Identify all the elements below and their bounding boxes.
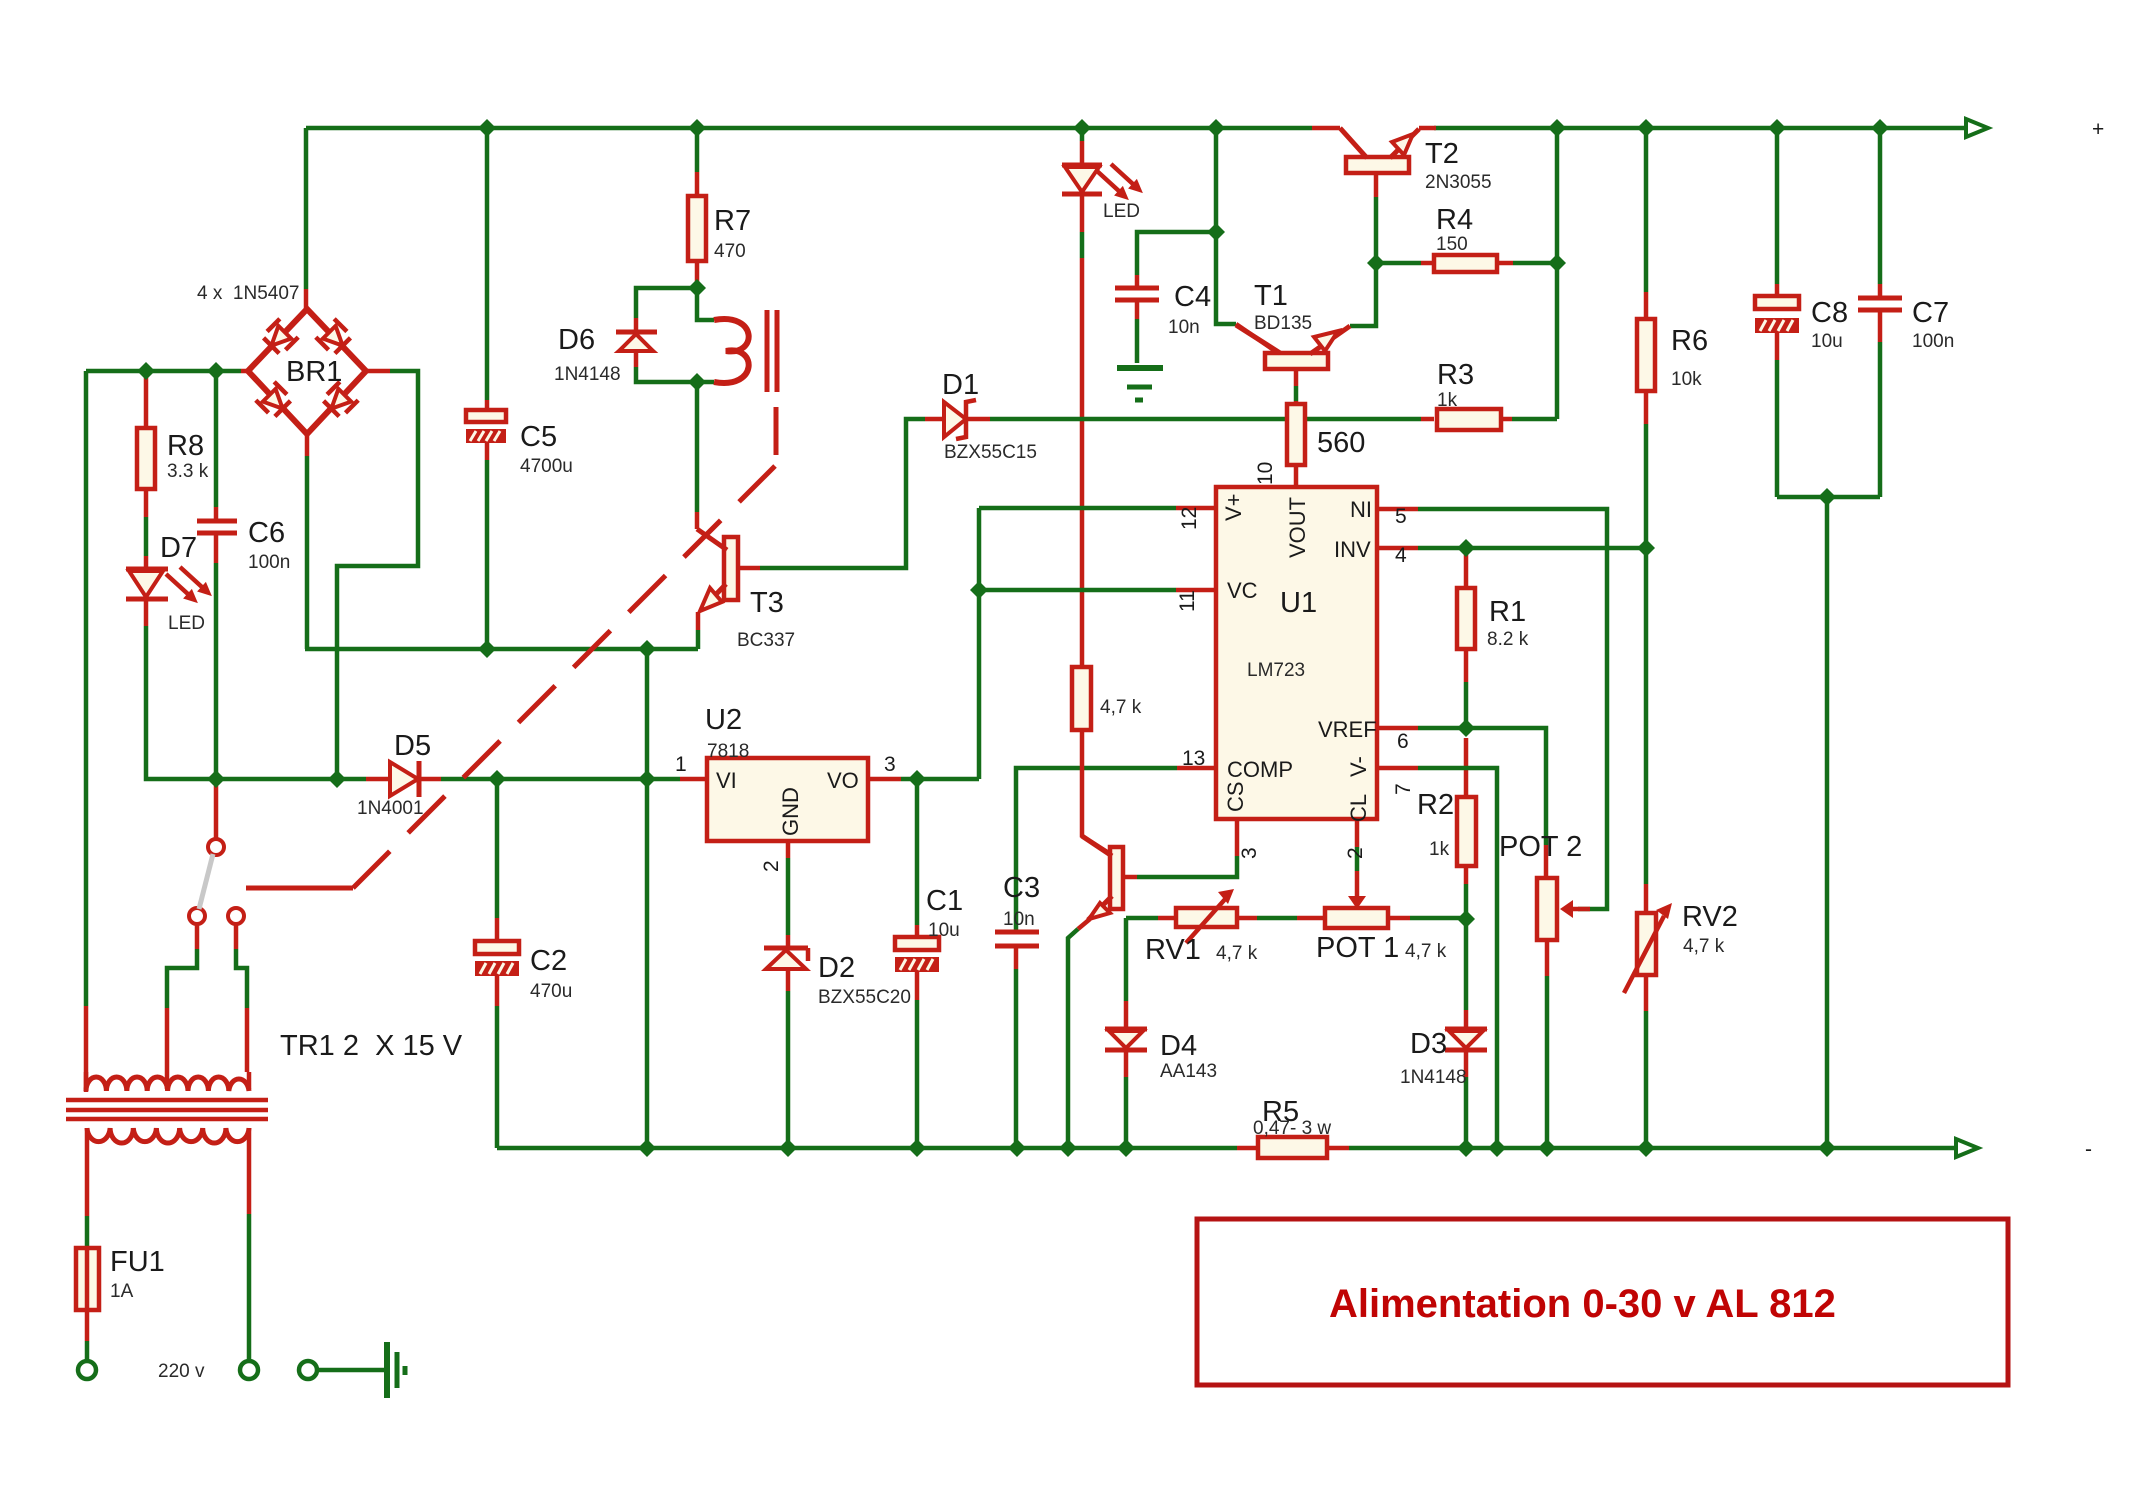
transformer TR1 secondary winding [86,1077,249,1091]
wire R4 leads [1376,261,1421,266]
wire D1 line left of 560 [990,417,1287,422]
svg-text:3.3 k: 3.3 k [167,461,209,482]
resistor R5 [1258,1137,1327,1158]
svg-text:BZX55C20: BZX55C20 [818,987,911,1008]
resistor R3 [1437,409,1501,430]
wire D7 bottom to y779 [144,600,149,626]
wire T3 emitter down [696,612,701,630]
wire switch common stub [214,786,219,839]
wire C7 branch [1878,128,1883,284]
svg-text:T3: T3 [750,587,784,619]
BR1 diode top-left [262,319,298,355]
capacitor C5 polarized [466,410,506,422]
svg-text:BD135: BD135 [1254,313,1312,334]
IC U1 LM723 [1216,487,1377,819]
wire U1 pin13 COMP line to C3 [1177,766,1216,771]
svg-text:10: 10 [1254,462,1277,485]
svg-text:C8: C8 [1811,297,1848,329]
svg-text:3: 3 [1238,847,1261,859]
wire left column top y371 [86,369,241,374]
pot POT1 [1325,871,1388,928]
wire C1 bottom [915,970,920,1000]
svg-text:4,7 k: 4,7 k [1216,943,1258,964]
wire U1 pin4 INV line [1377,546,1418,551]
svg-text:C3: C3 [1003,872,1040,904]
svg-text:T2: T2 [1425,138,1459,170]
wire C5 branch [485,128,490,400]
svg-text:C6: C6 [248,517,285,549]
resistor R4 [1434,255,1497,272]
capacitor C3 [995,932,1039,946]
diode D6 [616,332,657,351]
transformer secondary center tap [165,1072,170,1089]
trimmer RV1 [1176,889,1237,943]
wire left outer vertical x86 [84,371,89,1006]
wire LED cathode to 4.7k (long red) [1080,258,1085,667]
svg-text:R7: R7 [714,205,751,237]
wire T2 emitter stub on rail [1419,126,1436,131]
wire Tq base to CS pin3 [1124,875,1137,880]
resistor 4.7k vertical [1072,667,1091,730]
wire x1557 vertical rail to R3 [1555,128,1560,419]
svg-text:CL: CL [1346,794,1371,822]
wire LED top branch [1080,128,1085,141]
svg-text:VO: VO [827,768,859,793]
svg-text:C2: C2 [530,945,567,977]
svg-text:D6: D6 [558,324,595,356]
capacitor C4 [1115,288,1159,300]
wire POT1 right to node [1388,916,1410,921]
svg-text:U2: U2 [705,704,742,736]
svg-text:5: 5 [1395,505,1407,528]
svg-text:10n: 10n [1003,909,1035,930]
wire CS pin3 stub [1235,819,1240,841]
capacitor C6 [197,521,237,533]
wire y779 D5 line [216,777,366,782]
bridge BR1 [248,309,366,434]
svg-text:150: 150 [1436,234,1468,255]
wire R6 branch [1644,128,1649,292]
svg-text:4,7 k: 4,7 k [1683,936,1725,957]
transistor T3 [697,529,738,611]
switch linkage dashed [246,886,353,891]
svg-text:2N3055: 2N3055 [1425,172,1492,193]
wire C2 bottom [495,974,500,1006]
svg-text:R1: R1 [1489,596,1526,628]
svg-text:4 x 1N5407: 4 x 1N5407 [197,283,299,304]
ground C4 [1117,368,1163,400]
transistor Tq current limit [1082,836,1123,920]
fuse FU1 [76,1248,99,1310]
wire U1 pin11 line [979,588,1176,593]
wire C8 C7 bottom join [1777,495,1880,500]
svg-text:D1: D1 [942,369,979,401]
svg-text:INV: INV [1334,537,1371,562]
wire R2 leads [1464,738,1469,797]
svg-text:4,7 k: 4,7 k [1405,941,1447,962]
svg-text:V+: V+ [1221,493,1246,521]
wire D1 anode to T3 base riser [925,417,944,422]
resistor R1 [1457,588,1475,649]
svg-text:1: 1 [675,753,687,776]
pot POT2 [1537,878,1590,940]
wire Tq emitter down [1078,919,1090,929]
wire transformer primary left to FU1 [85,1128,90,1216]
output arrow minus [1956,1139,1978,1157]
wire ground terminal lead [318,1368,384,1373]
capacitor C1 polarized [895,937,939,950]
svg-text:NI: NI [1350,497,1372,522]
capacitor C2 polarized [475,941,519,954]
wire U1 pin2 CL stub [1355,819,1360,847]
svg-text:GND: GND [778,787,803,836]
svg-text:POT 1: POT 1 [1316,932,1399,964]
svg-text:COMP: COMP [1227,757,1293,782]
wire x647 vertical [645,649,650,1148]
svg-text:AA143: AA143 [1160,1061,1217,1082]
svg-text:D5: D5 [394,730,431,762]
wire relay coil leads [697,288,714,320]
wire D6 branch left [636,288,697,318]
wire RV1 left lead to D4 [1158,916,1176,921]
svg-text:1A: 1A [110,1281,134,1302]
wire C3 bottom [1014,948,1019,969]
wire BR1 bottom vertical [305,434,310,456]
svg-text:100n: 100n [248,552,290,573]
svg-text:C7: C7 [1912,297,1949,329]
wire switch left throw down [195,924,200,949]
resistor R2 [1457,797,1476,866]
svg-text:D3: D3 [1410,1028,1447,1060]
wire R3 leads [1499,417,1512,422]
svg-text:2: 2 [1344,847,1367,859]
svg-text:U1: U1 [1280,587,1317,619]
ground symbol 220v [387,1342,405,1398]
BR1 diode bottom-right [322,382,358,418]
svg-text:12: 12 [1178,507,1201,530]
svg-text:C5: C5 [520,421,557,453]
capacitor C7 [1858,298,1902,310]
svg-text:4: 4 [1395,544,1407,567]
svg-text:T1: T1 [1254,280,1288,312]
wire T1 collector from x1216 [1236,324,1278,353]
wire BR1 top vertical [304,128,309,289]
svg-text:11: 11 [1176,590,1199,612]
wire y649 line [305,647,698,652]
BR1 diode bottom-left [256,382,292,418]
wire transformer primary right to terminal [247,1128,252,1214]
wire U2 GND down to D2 [786,841,791,858]
svg-text:VI: VI [716,768,737,793]
svg-text:VREF: VREF [1318,717,1377,742]
svg-text:10u: 10u [928,920,960,941]
wire U1 pin7 V- to rail [1377,766,1418,771]
svg-text:D7: D7 [160,532,197,564]
svg-text:BR1: BR1 [286,356,342,388]
wire T2 base down to node [1374,172,1379,197]
resistor R6 [1637,319,1655,391]
svg-text:LED: LED [168,613,205,634]
svg-text:1k: 1k [1429,839,1450,860]
IC U2 7818 [707,758,868,841]
terminal 220v left [78,1361,96,1379]
title box [1197,1219,2008,1385]
wire RV2 top lead [1644,548,1649,884]
wire C4 vertical branch x1216 [1216,128,1236,324]
svg-text:VOUT: VOUT [1285,497,1310,558]
transformer core [66,1100,268,1119]
svg-text:1N4148: 1N4148 [1400,1067,1467,1088]
wire x1827 vertical to bottom rail [1825,497,1830,1148]
svg-text:2: 2 [760,860,783,872]
svg-text:R3: R3 [1437,359,1474,391]
svg-text:7: 7 [1392,783,1415,795]
svg-text:RV1: RV1 [1145,934,1201,966]
relay coil K1 [714,310,777,392]
svg-text:4700u: 4700u [520,456,573,477]
wire C1 top lead [915,779,920,925]
svg-text:1N4148: 1N4148 [554,364,621,385]
wire node down through D3 to rail [1464,919,1469,1010]
svg-text:3: 3 [884,753,896,776]
svg-text:V-: V- [1346,756,1371,777]
wire R8 leads [144,371,149,428]
wire T1 emitter riser [1350,263,1376,326]
wire x979 riser VO to V+ [977,508,982,779]
wire POT2 bottom [1545,940,1550,976]
diode D3 [1445,1029,1487,1050]
resistor R8 [137,428,155,489]
svg-text:-: - [2085,1138,2092,1161]
svg-text:BZX55C15: BZX55C15 [944,442,1037,463]
wire transformer secondary left lead [84,1072,89,1092]
wire relay to T3 collector [695,382,700,512]
wire POT2 wiper lead [1578,907,1590,912]
svg-text:POT 2: POT 2 [1499,831,1582,863]
svg-text:8.2 k: 8.2 k [1487,629,1529,650]
svg-text:0,47- 3 w: 0,47- 3 w [1253,1118,1331,1139]
svg-text:470: 470 [714,241,746,262]
svg-text:D4: D4 [1160,1030,1197,1062]
wire C6 leads [214,371,219,507]
svg-text:CS: CS [1223,781,1248,812]
transformer TR1 primary winding [87,1128,249,1143]
svg-text:10k: 10k [1671,369,1702,390]
diode D5 [390,761,419,797]
svg-text:10n: 10n [1168,317,1200,338]
terminal earth [299,1361,317,1379]
wire U2 VO to C1 node [868,777,901,782]
wire U1 pin5 NI to POT2 wiper [1377,507,1418,512]
svg-text:C1: C1 [926,885,963,917]
capacitor C8 polarized [1755,296,1799,309]
svg-text:LM723: LM723 [1247,660,1305,681]
resistor R7 [688,196,706,261]
wire U1 pin6 VREF line [1377,726,1418,731]
svg-text:FU1: FU1 [110,1246,165,1278]
svg-text:R4: R4 [1436,204,1473,236]
wire T2 collector stub on rail [1312,126,1340,131]
wire U1 pin12 line [979,506,1176,511]
output arrow plus [1966,119,1988,137]
svg-text:100n: 100n [1912,331,1954,352]
svg-text:1N4001: 1N4001 [357,798,424,819]
svg-text:VC: VC [1227,578,1258,603]
terminal 220v right [240,1361,258,1379]
wire RV1 right to POT1 left [1237,916,1257,921]
wire D2 anode to rail [786,966,791,991]
trimmer RV2 [1624,903,1672,993]
wire RV2 bottom [1644,975,1649,1011]
LED D7 [126,567,212,603]
transistor T1 [1236,325,1350,369]
svg-text:4,7 k: 4,7 k [1100,697,1142,718]
svg-text:+: + [2092,118,2104,141]
resistor 560 [1287,404,1305,465]
wire C8 branch [1775,128,1780,284]
wire top + rail left (unregulated) [306,126,1312,131]
wire C2 top lead [495,779,500,918]
svg-text:TR1 2 X 15 V: TR1 2 X 15 V [280,1030,463,1062]
wire T1 base to 560 [1294,366,1299,386]
BR1 diode top-right [316,319,352,355]
wire BR1 right vertex jog [366,369,390,374]
svg-text:7818: 7818 [707,741,749,762]
wire D4 to rail [1124,1051,1129,1077]
wire 4.7k bottom to Tq collector [1082,730,1112,855]
diode D4 [1105,1029,1147,1050]
zener D2 [764,948,808,969]
wire switch right throw down [234,924,239,949]
svg-text:R8: R8 [167,430,204,462]
wire bottom minus rail [497,1146,1237,1151]
zener D1 [944,400,976,439]
wire C4 horizontal [1137,232,1216,275]
wire top + rail right (output) [1434,126,1966,131]
svg-text:6: 6 [1397,730,1409,753]
LED indicator top [1062,164,1143,200]
svg-text:1k: 1k [1437,390,1458,411]
svg-text:220 v: 220 v [158,1361,205,1382]
svg-text:BC337: BC337 [737,630,795,651]
svg-text:RV2: RV2 [1682,901,1738,933]
svg-text:C4: C4 [1174,281,1211,313]
transistor T2 [1340,128,1419,173]
svg-text:LED: LED [1103,201,1140,222]
svg-text:10u: 10u [1811,331,1843,352]
svg-text:R2: R2 [1417,789,1454,821]
svg-text:Alimentation 0-30 v AL 812: Alimentation 0-30 v AL 812 [1329,1282,1836,1326]
switch SW [189,839,244,924]
svg-text:560: 560 [1317,427,1365,459]
svg-text:R6: R6 [1671,325,1708,357]
svg-text:D2: D2 [818,952,855,984]
svg-text:13: 13 [1182,747,1205,770]
wire R1 leads [1464,548,1469,588]
wire R7 branch [695,128,700,172]
svg-text:470u: 470u [530,981,572,1002]
